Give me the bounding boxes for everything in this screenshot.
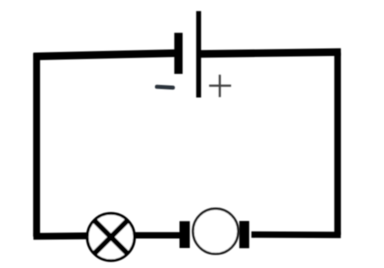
- wire top-left (left corner to battery minus bar): [33, 53, 174, 56]
- motor M1 right terminal block: [239, 221, 249, 248]
- lamp L1 (circle with X): [87, 213, 134, 260]
- battery positive plate (tall thin bar): [196, 11, 201, 97]
- wire lamp to motor: [133, 232, 180, 238]
- motor M1 body (circle): [193, 209, 238, 254]
- wire right vertical: [334, 53, 341, 235]
- label plus: [209, 75, 231, 97]
- wire top-right (battery plus bar to right corner): [201, 52, 341, 54]
- wire bottom-left (left corner to lamp): [33, 232, 90, 239]
- wire motor to right corner: [251, 231, 340, 238]
- label minus: [157, 85, 173, 90]
- motor M1 left terminal block: [180, 221, 190, 248]
- battery negative plate (short thick bar): [174, 33, 182, 74]
- wire left vertical: [33, 54, 40, 237]
